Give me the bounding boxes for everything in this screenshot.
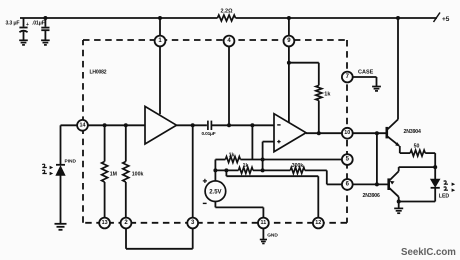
- pin 12: [313, 218, 324, 229]
- pin 11: [258, 218, 269, 229]
- pin 7: [342, 72, 353, 83]
- label R8 value 50: [414, 144, 420, 150]
- wire pullup to comparator output: [317, 101, 321, 136]
- comparator plus marking: [277, 140, 280, 143]
- pin 4: [224, 36, 235, 47]
- resistor R5 1k feedback: [225, 157, 240, 163]
- ground for case: [372, 87, 381, 91]
- op-amp A2 comparator: [274, 114, 306, 152]
- svg-text:LH0082: LH0082: [90, 70, 107, 76]
- ground for C1: [19, 40, 28, 45]
- svg-text:1k: 1k: [324, 92, 331, 98]
- wire pin6 to Q2 base: [353, 182, 388, 186]
- ground for pin11 GND: [260, 240, 267, 244]
- wire pin4 down to signal node: [227, 46, 231, 127]
- wire inverting node down: [251, 125, 253, 159]
- wire Q1 collector to rail: [396, 16, 400, 119]
- label CASE: [358, 70, 374, 76]
- wire pin9 down to comparator top: [287, 46, 291, 122]
- resistor R8 50: [410, 150, 425, 156]
- wire 100k to pin2: [125, 182, 127, 218]
- wire R8 to LED node: [425, 153, 437, 169]
- label R1 value 2.2 ohm: [220, 9, 233, 15]
- wire row2 middle: [253, 169, 290, 171]
- ground for C2: [41, 40, 50, 45]
- wire pin7 to case ground: [353, 77, 377, 86]
- pin 13: [99, 218, 110, 229]
- pin 2: [121, 218, 132, 229]
- svg-text:1k: 1k: [229, 152, 235, 158]
- wire 100k top lead: [125, 125, 127, 161]
- svg-text:GND: GND: [267, 233, 278, 239]
- pin 14: [77, 120, 88, 131]
- svg-text:+5: +5: [442, 16, 450, 23]
- label R7 value 300k: [292, 163, 304, 169]
- label C3 value 0.01uF: [202, 131, 216, 137]
- comparator minus marking: [277, 124, 280, 126]
- svg-text:100k: 100k: [132, 171, 144, 177]
- label C1 value 3.3 uF: [6, 21, 20, 27]
- svg-text:2.2Ω: 2.2Ω: [220, 9, 233, 15]
- diode D2 LED: [431, 179, 440, 201]
- wire Q2 emitter to LED node: [399, 167, 436, 171]
- pin 6: [342, 179, 353, 190]
- resistor R7 300k: [290, 167, 305, 173]
- svg-text:10: 10: [344, 130, 350, 136]
- light arrows into photodiode: [42, 164, 53, 175]
- wire buffer output: [177, 123, 207, 127]
- resistor R6 1k hysteresis: [239, 167, 254, 173]
- label D1 PIND: [65, 158, 77, 164]
- label +5 supply: [442, 16, 450, 23]
- svg-text:2N3904: 2N3904: [404, 129, 422, 135]
- capacitor C2 .01uF: [41, 18, 49, 40]
- transistor Q2 2N3906: [389, 171, 399, 197]
- ground for photodiode: [55, 224, 67, 230]
- wire pin14 to buffer input: [88, 123, 145, 127]
- capacitor C1 3.3uF (polarized): [19, 18, 27, 40]
- resistor R1 2.2 ohm inline on supply rail: [218, 15, 236, 21]
- wire pin1 to rail: [158, 16, 162, 36]
- wire pin14 to photodiode: [61, 125, 78, 164]
- svg-text:PIND: PIND: [65, 158, 77, 164]
- pin 9: [284, 36, 295, 47]
- wire LED cathode to ground node: [399, 201, 436, 203]
- label R5 value 1k: [229, 152, 235, 158]
- label Q2 2N3906: [363, 193, 381, 199]
- wire 1M to pin13: [104, 182, 106, 218]
- label R6 value 1k: [243, 163, 249, 169]
- ground for Q2: [394, 208, 403, 213]
- wire feedback to pin3: [192, 125, 194, 217]
- svg-text:SeekIC.com: SeekIC.com: [401, 247, 456, 258]
- junction C2 to rail: [43, 16, 47, 20]
- pin 1: [155, 36, 166, 47]
- IC U1 LH0082 dashed package outline: [83, 40, 347, 223]
- photodiode D1 PIND: [56, 165, 65, 224]
- svg-text:2N3906: 2N3906: [363, 193, 381, 199]
- svg-text:50: 50: [414, 144, 420, 150]
- wire noninverting vertical: [261, 142, 265, 173]
- wire C3 to comparator inverting input: [211, 123, 274, 127]
- wire Q1 base to Q2 base: [376, 133, 378, 184]
- label R2 value 1k: [324, 92, 331, 98]
- label C1 plus polarity: [26, 22, 29, 28]
- label GND: [267, 233, 278, 239]
- label D2 LED: [439, 193, 450, 199]
- svg-text:12: 12: [315, 220, 321, 226]
- svg-text:11: 11: [261, 220, 267, 226]
- wire pin9 node to pullup: [289, 63, 319, 86]
- voltage source V1 2.5V: [205, 181, 226, 202]
- label R4 value 100k: [132, 171, 144, 177]
- supply entry slash tick: [434, 13, 441, 23]
- wire row2 left segment: [213, 168, 238, 172]
- label Q1 2N3904: [404, 129, 422, 135]
- op-amp A1 buffer: [145, 106, 177, 144]
- light arrows out of LED: [444, 181, 456, 192]
- svg-text:CASE: CASE: [358, 70, 374, 76]
- wire 1M top lead: [104, 125, 106, 161]
- svg-text:0.01μF: 0.01μF: [202, 131, 216, 137]
- wire +5V supply rail left segment: [20, 17, 218, 19]
- wire pin9 to rail: [287, 16, 291, 36]
- wire reference to threshold rows: [214, 160, 216, 181]
- wire reference to pin11: [215, 202, 263, 218]
- svg-text:1M: 1M: [110, 171, 117, 177]
- pin 5: [342, 154, 353, 165]
- svg-text:14: 14: [80, 122, 86, 128]
- svg-text:13: 13: [102, 220, 108, 226]
- resistor R2 1k pullup: [316, 85, 322, 100]
- label C2 value .01uF: [32, 21, 45, 27]
- svg-text:3.3 μF: 3.3 μF: [6, 21, 20, 27]
- wire Q1 emitter to R8: [400, 146, 410, 153]
- resistor R4 100k: [123, 162, 129, 183]
- resistor R3 1M: [102, 162, 108, 183]
- svg-text:1k: 1k: [243, 163, 249, 169]
- pin 3: [187, 218, 198, 229]
- wire Q2 collector to ground node: [397, 197, 401, 204]
- wire row3 to pin12: [226, 170, 318, 217]
- wire pin10 to Q1 base: [353, 131, 387, 135]
- V1 plus marking: [203, 179, 207, 183]
- wire pin1 to buffer top: [159, 46, 161, 114]
- watermark SeekIC.com: [401, 247, 456, 258]
- svg-text:.01μF: .01μF: [32, 21, 45, 27]
- wire noninverting input: [263, 141, 274, 143]
- transistor Q1 2N3904: [387, 119, 400, 146]
- svg-text:+: +: [26, 22, 29, 28]
- label R3 value 1M: [110, 171, 117, 177]
- svg-text:LED: LED: [439, 193, 450, 199]
- svg-text:2.5V: 2.5V: [209, 190, 221, 196]
- wire Q2 ground lead: [398, 202, 400, 209]
- wire threshold row1 to pin5: [240, 158, 342, 162]
- pin 10: [342, 128, 353, 139]
- wire 300k to pin6: [305, 170, 342, 184]
- wire pin2 to pin3 link: [126, 228, 193, 248]
- wire comparator output to pin10: [306, 132, 342, 134]
- label U1 LH0082: [90, 70, 107, 76]
- V1 minus marking: [203, 202, 207, 204]
- capacitor C3 0.01uF coupling: [208, 121, 212, 130]
- wire pin11 to ground: [262, 228, 264, 239]
- svg-text:300k: 300k: [292, 163, 304, 169]
- wire LED anode: [434, 167, 436, 179]
- wire threshold row1 left: [215, 159, 225, 161]
- wire +5V supply rail right segment: [236, 17, 438, 19]
